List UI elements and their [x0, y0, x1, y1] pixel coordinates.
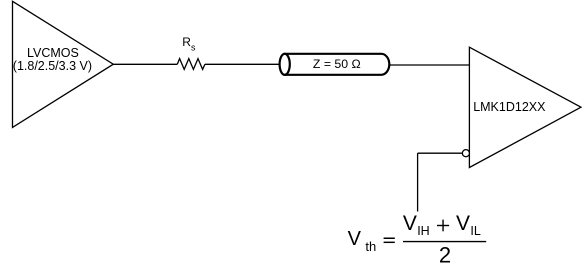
- wire driver output to resistor: [113, 63, 177, 65]
- svg-text:V: V: [403, 212, 417, 235]
- svg-text:LMK1D12XX: LMK1D12XX: [473, 100, 546, 114]
- svg-text:2: 2: [439, 242, 451, 267]
- transmission line T1 body: [285, 54, 390, 75]
- equation plus sign horizontal bar: [437, 225, 449, 226]
- transmission line T1 left end ellipse: [280, 54, 290, 75]
- receiver buffer U2 LMK1D12XX: [469, 47, 581, 167]
- equation plus sign vertical bar: [442, 220, 443, 232]
- wire resistor to transmission line: [205, 63, 285, 65]
- svg-text:Rs: Rs: [182, 35, 196, 52]
- svg-text:(1.8/2.5/3.3 V): (1.8/2.5/3.3 V): [13, 59, 92, 73]
- svg-text:V: V: [456, 212, 470, 235]
- svg-text:LVCMOS: LVCMOS: [27, 46, 79, 60]
- svg-text:Z = 50 Ω: Z = 50 Ω: [313, 57, 361, 71]
- equation equals sign bottom bar: [384, 242, 395, 243]
- svg-text:IH: IH: [417, 224, 430, 238]
- equation equals sign top bar: [384, 238, 395, 240]
- equation fraction bar: [403, 241, 486, 243]
- svg-text:V: V: [348, 228, 362, 250]
- wire transmission line to receiver input: [389, 64, 470, 66]
- svg-text:IL: IL: [470, 224, 480, 238]
- wire VTH vertical segment: [417, 153, 419, 211]
- svg-text:th: th: [365, 239, 376, 254]
- inversion bubble on VTH input: [462, 150, 469, 157]
- driver buffer U1 (LVCMOS source): [13, 1, 114, 127]
- wire VTH horizontal segment: [418, 152, 462, 154]
- resistor RS: [177, 59, 205, 70]
